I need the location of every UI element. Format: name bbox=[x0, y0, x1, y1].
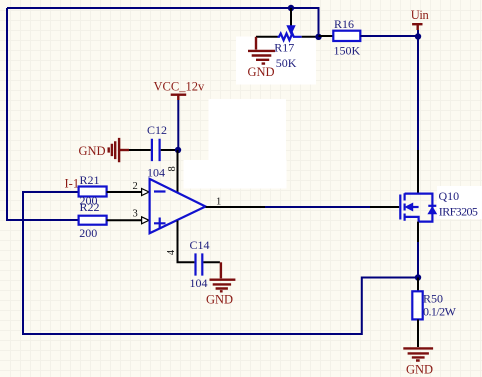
pin drain Q10 bbox=[417, 150, 419, 194]
resistor R17 left lead bbox=[256, 36, 278, 38]
wire R16 to Uin node bbox=[360, 35, 418, 37]
pin 2 arrowhead bbox=[142, 189, 149, 196]
svg-text:Q10: Q10 bbox=[439, 189, 460, 203]
pin R50 bottom bbox=[417, 319, 419, 347]
wire VCC to C12 node bbox=[177, 100, 179, 150]
svg-text:R16: R16 bbox=[334, 17, 354, 31]
svg-text:50K: 50K bbox=[276, 56, 297, 70]
svg-text:GND: GND bbox=[406, 363, 433, 377]
svg-text:GND: GND bbox=[248, 65, 275, 79]
svg-text:104: 104 bbox=[190, 276, 208, 290]
wire output to gate bbox=[265, 206, 370, 208]
power port VCC_12v bbox=[154, 80, 205, 101]
wire R21 feedback loop bbox=[23, 192, 418, 334]
white patch behind R17 GND area bbox=[236, 37, 316, 85]
node junction R17/R16 bbox=[315, 34, 321, 40]
resistor R21 body bbox=[79, 187, 107, 197]
pin op-amp V+ (pin 8) bbox=[177, 150, 179, 192]
op-amp triangle bbox=[150, 179, 206, 233]
svg-text:4: 4 bbox=[166, 249, 177, 255]
ground GND at R50 bbox=[403, 348, 433, 376]
pin op-amp V- (pin 4) bbox=[178, 221, 195, 263]
op-amp minus input bbox=[154, 190, 166, 192]
svg-text:2: 2 bbox=[133, 181, 138, 192]
resistor R50 body bbox=[412, 291, 422, 319]
capacitor C12 left pin bbox=[129, 149, 151, 151]
resistor R16 body bbox=[333, 31, 360, 41]
transistor Q10 body diode bbox=[428, 207, 436, 214]
white patch behind op-amp bbox=[209, 99, 287, 161]
pin source Q10 bbox=[417, 222, 419, 242]
resistor R17 arrow wiper bbox=[287, 26, 295, 34]
svg-text:200: 200 bbox=[79, 226, 97, 240]
ground GND left of C12 (rotated) bbox=[79, 138, 130, 162]
capacitor C12 right pin bbox=[161, 149, 175, 151]
pin R22 to op-amp pin 3 bbox=[107, 219, 142, 221]
white patch behind Q10 labels bbox=[437, 186, 482, 219]
node junction C12 bbox=[175, 147, 181, 153]
resistor R17 right lead bbox=[302, 36, 319, 38]
svg-text:VCC_12v: VCC_12v bbox=[154, 80, 205, 94]
pin R21 to op-amp pin 2 bbox=[107, 191, 142, 193]
op-amp plus input bbox=[154, 218, 166, 230]
svg-text:R17: R17 bbox=[274, 41, 294, 55]
wire Uin node down to Q10 drain bbox=[417, 30, 419, 150]
resistor R22 body bbox=[79, 216, 107, 225]
wire wiper stem bbox=[290, 8, 292, 26]
wire left outer vertical to R22 bbox=[7, 8, 79, 220]
ground GND near R17 bbox=[248, 37, 276, 79]
resistor R16 pins bbox=[319, 35, 334, 37]
pin gate Q10 bbox=[370, 206, 399, 208]
op-amp output pin 1 bbox=[206, 206, 266, 208]
node junction top wiper bbox=[288, 5, 294, 11]
node junction Uin bbox=[415, 33, 421, 39]
resistor R17 zigzag bbox=[278, 34, 302, 41]
capacitor C14 plates bbox=[196, 253, 203, 275]
svg-text:R21: R21 bbox=[80, 173, 100, 187]
svg-text:GND: GND bbox=[79, 144, 106, 158]
wire top net bbox=[7, 8, 319, 37]
power port Uin bbox=[411, 8, 430, 30]
wire source down to R50 node bbox=[417, 242, 419, 278]
svg-text:I-1: I-1 bbox=[65, 177, 80, 191]
svg-text:C14: C14 bbox=[190, 238, 210, 252]
capacitor C14 right pin bbox=[203, 261, 220, 263]
svg-text:Uin: Uin bbox=[411, 8, 430, 22]
pin R50 top bbox=[417, 278, 419, 292]
svg-text:0.1/2W: 0.1/2W bbox=[423, 305, 457, 319]
node junction R50 bbox=[415, 274, 421, 280]
svg-text:150K: 150K bbox=[334, 43, 361, 57]
transistor Q10 MOSFET body bbox=[400, 193, 436, 221]
svg-text:1: 1 bbox=[216, 197, 221, 208]
svg-text:R50: R50 bbox=[423, 292, 443, 306]
svg-text:3: 3 bbox=[133, 209, 138, 220]
svg-text:IRF3205: IRF3205 bbox=[439, 205, 478, 219]
svg-text:8: 8 bbox=[167, 166, 178, 171]
transistor Q10 substrate arrow bbox=[405, 203, 413, 211]
svg-text:104: 104 bbox=[147, 166, 165, 180]
svg-text:C12: C12 bbox=[147, 123, 167, 137]
svg-text:R22: R22 bbox=[80, 200, 100, 214]
ground GND at C14 bbox=[206, 262, 235, 306]
pin 3 arrowhead bbox=[142, 217, 149, 224]
capacitor C12 plates bbox=[152, 139, 160, 161]
svg-text:GND: GND bbox=[206, 293, 233, 307]
